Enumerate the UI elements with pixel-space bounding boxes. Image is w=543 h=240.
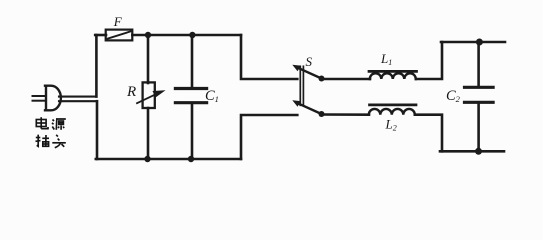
- wire: top rail from left bus corner to fuse: [95, 34, 106, 37]
- wire: step from top rail down to switch top feed: [241, 35, 297, 79]
- switch S mechanical linkage (double line): [300, 66, 303, 105]
- svg-text:F: F: [113, 14, 123, 29]
- node: junction bottom rail / C1 branch: [188, 156, 194, 162]
- wire: switch top contact to L1: [322, 78, 371, 81]
- char 头: [52, 135, 66, 148]
- char 源: [52, 119, 66, 130]
- wire: C2 bottom lead: [477, 103, 480, 152]
- wire: left bus lower segment (cord down to bottom rail): [96, 101, 99, 159]
- switch S blade 2 (bottom pole): [292, 100, 321, 114]
- wire: R1 bottom lead: [147, 108, 150, 159]
- char 插: [36, 135, 50, 147]
- wire: C1 bottom lead: [191, 103, 194, 159]
- fuse F: [106, 30, 133, 41]
- label 电源插头 (power plug, hand-drawn CJK strokes): [36, 117, 66, 148]
- svg-text:S: S: [306, 54, 313, 69]
- capacitor C1 plate 1: [175, 87, 206, 90]
- node: junction right bottom rail / C2: [475, 148, 482, 155]
- wire: C1 top lead: [191, 35, 194, 88]
- wire: switch bottom contact to L2: [322, 113, 370, 116]
- inductor L2 core bar: [370, 104, 417, 107]
- wire: L2 to bottom-right corner down to right bottom rail: [415, 115, 442, 152]
- capacitor C1 plate 2: [175, 101, 206, 104]
- inductor L1 (coil humps): [370, 73, 416, 79]
- wire: right section bottom rail: [440, 150, 504, 153]
- wire: left bus upper segment (cord up to top rail): [95, 35, 98, 97]
- wire: cord upper conductor from plug to left bus: [59, 96, 96, 98]
- wire: L1 to top-right corner up to right top rail: [416, 42, 442, 79]
- capacitor C2 plate 1: [465, 86, 494, 89]
- wire: top rail from fuse to step corner: [132, 34, 241, 37]
- svg-text:R: R: [126, 84, 136, 100]
- inductor L1 core bar: [369, 70, 417, 73]
- node: junction bottom rail / R branch: [144, 156, 150, 162]
- inductor L2 (coil humps): [369, 109, 415, 115]
- wire: right section top rail: [441, 41, 505, 44]
- char 电: [36, 117, 48, 129]
- capacitor C2 plate 2: [465, 101, 494, 104]
- wire: bottom rail of input section: [96, 158, 241, 161]
- node: junction right top rail / C2: [476, 39, 483, 46]
- node: switch S top contact: [319, 76, 325, 82]
- wire: cord lower conductor from plug to left bus: [59, 100, 97, 102]
- wire: R1 top lead: [147, 35, 150, 83]
- power plug P1 pin 1 (top prong): [33, 95, 47, 97]
- node: junction top rail / R branch: [145, 32, 151, 38]
- power plug P1 pin 2 (bottom prong): [33, 100, 47, 102]
- node: switch S bottom contact: [319, 111, 325, 117]
- power plug P1 (body): [45, 86, 61, 111]
- resistor R arrow: [137, 90, 166, 103]
- switch S blade 1 (top pole): [292, 65, 321, 79]
- node: junction top rail / C1 branch: [189, 32, 195, 38]
- wire: C2 top lead: [477, 42, 480, 87]
- resistor R (varistor body): [143, 82, 155, 108]
- wire: step from bottom rail up to switch bottom feed: [241, 115, 297, 159]
